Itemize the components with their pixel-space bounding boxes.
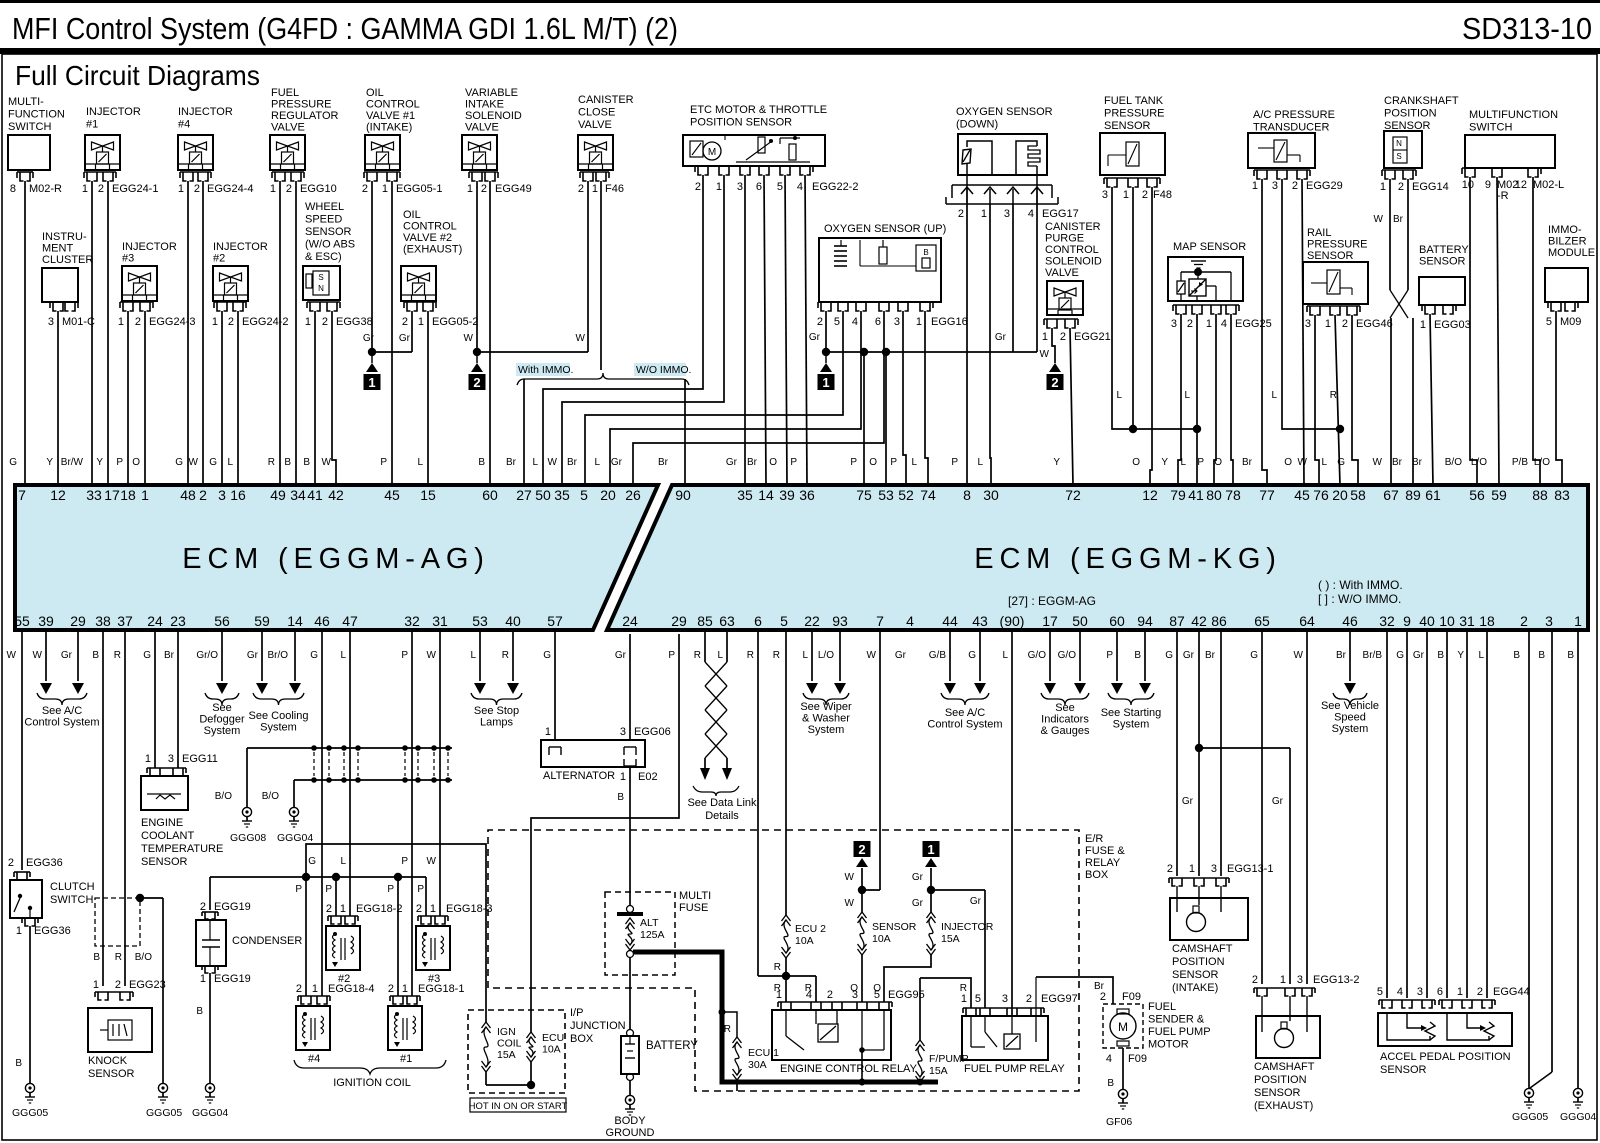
svg-text:GROUND: GROUND <box>606 1127 655 1139</box>
svg-text:L: L <box>1116 390 1122 401</box>
svg-text:4: 4 <box>797 181 803 193</box>
svg-text:1: 1 <box>961 993 967 1005</box>
svg-text:(W/O ABS: (W/O ABS <box>305 239 355 251</box>
svg-text:SENSOR: SENSOR <box>872 921 917 933</box>
svg-text:94: 94 <box>1137 613 1153 629</box>
svg-text:4: 4 <box>1028 208 1034 220</box>
svg-text:VALVE #2: VALVE #2 <box>403 232 452 244</box>
svg-text:N: N <box>1396 139 1402 148</box>
svg-text:P: P <box>890 457 897 468</box>
svg-text:Gr: Gr <box>912 872 924 883</box>
svg-text:MULTI-: MULTI- <box>8 96 44 108</box>
svg-text:INJECTOR: INJECTOR <box>941 921 994 933</box>
svg-text:15: 15 <box>420 487 436 503</box>
svg-text:2: 2 <box>1026 993 1032 1005</box>
svg-text:26: 26 <box>625 487 641 503</box>
svg-text:P: P <box>387 884 394 895</box>
svg-text:1: 1 <box>592 183 598 195</box>
svg-text:31: 31 <box>432 613 448 629</box>
svg-text:F09: F09 <box>1128 1053 1147 1065</box>
svg-text:EGG11: EGG11 <box>182 753 218 765</box>
svg-text:2: 2 <box>228 316 234 328</box>
svg-text:W: W <box>1298 457 1308 468</box>
svg-text:R: R <box>773 650 780 661</box>
svg-text:FUEL: FUEL <box>271 87 299 99</box>
svg-text:P: P <box>380 457 387 468</box>
svg-text:10A: 10A <box>542 1044 561 1056</box>
svg-text:L: L <box>470 650 476 661</box>
svg-text:9: 9 <box>1403 613 1411 629</box>
svg-text:3: 3 <box>48 316 54 328</box>
svg-text:24: 24 <box>147 613 163 629</box>
svg-text:6: 6 <box>756 181 762 193</box>
svg-text:SENSOR: SENSOR <box>88 1068 135 1080</box>
svg-text:See A/C: See A/C <box>945 707 985 719</box>
svg-text:EGG05-1: EGG05-1 <box>396 183 442 195</box>
svg-text:EGG19: EGG19 <box>214 973 251 985</box>
svg-text:(90): (90) <box>1000 613 1025 629</box>
svg-text:Y: Y <box>96 457 103 468</box>
svg-text:41: 41 <box>1188 487 1204 503</box>
svg-text:F48: F48 <box>1153 189 1172 201</box>
svg-text:COOLANT: COOLANT <box>141 830 194 842</box>
svg-text:1: 1 <box>430 903 436 915</box>
svg-text:W: W <box>845 872 855 883</box>
svg-text:CONTROL: CONTROL <box>403 221 457 233</box>
svg-text:77: 77 <box>1259 487 1275 503</box>
svg-text:R: R <box>114 650 121 661</box>
svg-text:G: G <box>209 457 217 468</box>
svg-text:B: B <box>1513 650 1520 661</box>
svg-text:3: 3 <box>620 726 626 738</box>
svg-text:L: L <box>227 457 233 468</box>
svg-text:See Starting: See Starting <box>1101 707 1162 719</box>
svg-text:P: P <box>951 457 958 468</box>
svg-text:4: 4 <box>1397 986 1403 998</box>
svg-text:FUSE &: FUSE & <box>1085 845 1125 857</box>
svg-text:W: W <box>1374 214 1384 225</box>
svg-text:10: 10 <box>1439 613 1455 629</box>
svg-text:2: 2 <box>1520 613 1528 629</box>
svg-text:W: W <box>427 856 437 867</box>
svg-text:2: 2 <box>481 183 487 195</box>
svg-text:SENSOR: SENSOR <box>141 856 188 868</box>
svg-text:1: 1 <box>418 316 424 328</box>
svg-text:3: 3 <box>1545 613 1553 629</box>
svg-text:78: 78 <box>1225 487 1241 503</box>
svg-text:53: 53 <box>472 613 488 629</box>
svg-text:Gr: Gr <box>399 333 411 344</box>
svg-text:SOLENOID: SOLENOID <box>1045 256 1102 268</box>
svg-text:Y: Y <box>1161 457 1168 468</box>
svg-text:2: 2 <box>1187 318 1193 330</box>
svg-text:-R: -R <box>1497 190 1509 202</box>
svg-text:36: 36 <box>799 487 815 503</box>
svg-text:G: G <box>543 650 551 661</box>
svg-text:ECU 2: ECU 2 <box>795 923 826 935</box>
svg-text:3: 3 <box>737 181 743 193</box>
svg-text:5: 5 <box>834 316 840 328</box>
svg-text:CLUSTER: CLUSTER <box>42 254 93 266</box>
svg-text:5: 5 <box>1546 316 1552 328</box>
svg-text:F09: F09 <box>1122 991 1141 1003</box>
svg-text:1: 1 <box>1206 318 1212 330</box>
svg-text:(INTAKE): (INTAKE) <box>1172 982 1218 994</box>
svg-text:2: 2 <box>8 857 14 869</box>
svg-text:#1: #1 <box>400 1053 412 1065</box>
svg-text:GGG05: GGG05 <box>12 1107 48 1119</box>
svg-text:1: 1 <box>200 973 206 985</box>
svg-text:PRESSURE: PRESSURE <box>1307 239 1368 251</box>
svg-text:#4: #4 <box>308 1053 320 1065</box>
svg-text:5: 5 <box>874 989 880 1001</box>
svg-text:27: 27 <box>516 487 532 503</box>
svg-text:50: 50 <box>535 487 551 503</box>
svg-text:48: 48 <box>180 487 196 503</box>
svg-text:5: 5 <box>975 993 981 1005</box>
svg-text:Br: Br <box>658 457 669 468</box>
svg-text:L: L <box>1002 650 1008 661</box>
svg-text:M: M <box>1118 1020 1128 1034</box>
svg-text:G: G <box>308 856 316 867</box>
svg-text:Br/W: Br/W <box>61 457 84 468</box>
svg-text:18: 18 <box>1479 613 1495 629</box>
svg-text:#2: #2 <box>213 253 225 265</box>
svg-text:P: P <box>668 650 675 661</box>
svg-text:O: O <box>1132 457 1140 468</box>
svg-text:Y: Y <box>1053 457 1060 468</box>
svg-text:1: 1 <box>1325 318 1331 330</box>
svg-text:1: 1 <box>82 183 88 195</box>
svg-text:2: 2 <box>286 183 292 195</box>
svg-text:S: S <box>318 273 323 282</box>
svg-text:L: L <box>911 457 917 468</box>
svg-text:1: 1 <box>1042 331 1048 343</box>
svg-text:W: W <box>464 333 474 344</box>
svg-text:EGG06: EGG06 <box>634 726 671 738</box>
svg-text:Defogger: Defogger <box>199 714 245 726</box>
svg-text:39: 39 <box>779 487 795 503</box>
svg-text:System: System <box>1113 719 1150 731</box>
svg-text:MULTIFUNCTION: MULTIFUNCTION <box>1469 109 1558 121</box>
svg-text:2: 2 <box>402 316 408 328</box>
svg-text:PRESSURE: PRESSURE <box>271 99 332 111</box>
svg-text:3: 3 <box>218 487 226 503</box>
svg-text:EGG24-2: EGG24-2 <box>242 316 288 328</box>
svg-text:2: 2 <box>827 989 833 1001</box>
svg-text:VALVE: VALVE <box>578 119 612 131</box>
svg-text:Gr: Gr <box>995 332 1007 343</box>
svg-text:1: 1 <box>1252 180 1258 192</box>
svg-text:2: 2 <box>1252 974 1258 986</box>
svg-text:1: 1 <box>118 316 124 328</box>
svg-text:INJECTOR: INJECTOR <box>213 241 268 253</box>
svg-text:WHEEL: WHEEL <box>305 201 344 213</box>
svg-text:KNOCK: KNOCK <box>88 1055 128 1067</box>
svg-text:56: 56 <box>1469 487 1485 503</box>
svg-text:Br/B: Br/B <box>1363 650 1383 661</box>
svg-text:EGG17: EGG17 <box>1042 208 1079 220</box>
svg-text:B: B <box>923 248 928 257</box>
svg-text:14: 14 <box>758 487 774 503</box>
svg-text:GGG05: GGG05 <box>1512 1111 1548 1123</box>
svg-text:B: B <box>196 1006 203 1017</box>
svg-text:G: G <box>175 457 183 468</box>
svg-text:W: W <box>33 650 43 661</box>
svg-text:7: 7 <box>18 487 26 503</box>
svg-text:& Gauges: & Gauges <box>1041 725 1090 737</box>
svg-text:47: 47 <box>342 613 358 629</box>
svg-text:2: 2 <box>958 208 964 220</box>
svg-text:1: 1 <box>145 753 151 765</box>
svg-text:P: P <box>790 457 797 468</box>
svg-text:See: See <box>1055 702 1075 714</box>
svg-text:1: 1 <box>1574 613 1582 629</box>
svg-text:9: 9 <box>1485 179 1491 191</box>
svg-text:SENSOR: SENSOR <box>1380 1064 1427 1076</box>
svg-text:49: 49 <box>270 487 286 503</box>
svg-text:L: L <box>1321 457 1327 468</box>
svg-text:1: 1 <box>1457 986 1463 998</box>
svg-text:B: B <box>1437 650 1444 661</box>
svg-text:OXYGEN SENSOR: OXYGEN SENSOR <box>956 106 1053 118</box>
svg-text:5: 5 <box>777 181 783 193</box>
svg-text:67: 67 <box>1383 487 1399 503</box>
svg-text:29: 29 <box>70 613 86 629</box>
svg-text:G: G <box>143 650 151 661</box>
svg-text:OXYGEN SENSOR (UP): OXYGEN SENSOR (UP) <box>824 223 946 235</box>
svg-text:60: 60 <box>1109 613 1125 629</box>
svg-text:B/O: B/O <box>1445 457 1462 468</box>
svg-text:MAP SENSOR: MAP SENSOR <box>1173 241 1246 253</box>
svg-text:12: 12 <box>50 487 66 503</box>
svg-text:INJECTOR: INJECTOR <box>178 106 233 118</box>
svg-text:Y: Y <box>46 457 53 468</box>
svg-text:7: 7 <box>876 613 884 629</box>
svg-text:CLUTCH: CLUTCH <box>50 881 95 893</box>
svg-text:See Vehicle: See Vehicle <box>1321 700 1379 712</box>
svg-text:1: 1 <box>382 183 388 195</box>
svg-text:40: 40 <box>1419 613 1435 629</box>
svg-text:Gr: Gr <box>611 457 623 468</box>
svg-text:2: 2 <box>1292 180 1298 192</box>
svg-text:3: 3 <box>1171 318 1177 330</box>
svg-text:B: B <box>15 1058 22 1069</box>
svg-text:IMMO-: IMMO- <box>1548 224 1582 236</box>
svg-text:17: 17 <box>1042 613 1058 629</box>
svg-text:FUEL TANK: FUEL TANK <box>1104 95 1164 107</box>
svg-text:1: 1 <box>1420 319 1426 331</box>
svg-text:PRESSURE: PRESSURE <box>1104 108 1165 120</box>
svg-text:EGG18-3: EGG18-3 <box>446 903 492 915</box>
svg-text:G: G <box>968 650 976 661</box>
svg-text:P: P <box>1106 650 1113 661</box>
svg-text:Details: Details <box>705 810 739 822</box>
svg-text:L/O: L/O <box>1471 457 1487 468</box>
svg-text:6: 6 <box>1437 986 1443 998</box>
svg-text:1: 1 <box>141 487 149 503</box>
svg-text:W: W <box>867 650 877 661</box>
svg-text:30: 30 <box>983 487 999 503</box>
svg-text:3: 3 <box>894 316 900 328</box>
svg-text:POSITION: POSITION <box>1384 108 1437 120</box>
svg-text:B: B <box>1107 1078 1114 1089</box>
svg-text:Gr: Gr <box>970 896 982 907</box>
svg-text:89: 89 <box>1405 487 1421 503</box>
svg-text:With IMMO.: With IMMO. <box>518 364 573 376</box>
svg-text:4: 4 <box>852 316 858 328</box>
svg-text:1: 1 <box>467 183 473 195</box>
svg-text:EGG21: EGG21 <box>1074 331 1111 343</box>
svg-text:L/O: L/O <box>818 650 834 661</box>
svg-text:Speed: Speed <box>1334 712 1366 724</box>
svg-text:W: W <box>1294 650 1304 661</box>
svg-text:POSITION: POSITION <box>1254 1074 1307 1086</box>
svg-text:SWITCH: SWITCH <box>50 894 93 906</box>
svg-text:10: 10 <box>1462 179 1474 191</box>
svg-text:& Washer: & Washer <box>802 713 850 725</box>
svg-text:A/C PRESSURE: A/C PRESSURE <box>1253 109 1335 121</box>
svg-text:ECM (EGGM-KG): ECM (EGGM-KG) <box>974 543 1281 575</box>
svg-text:22: 22 <box>804 613 820 629</box>
svg-text:2: 2 <box>1142 189 1148 201</box>
svg-text:P: P <box>417 884 424 895</box>
svg-text:EGG14: EGG14 <box>1412 181 1449 193</box>
svg-text:29: 29 <box>671 613 687 629</box>
svg-text:B: B <box>617 792 624 803</box>
svg-text:3: 3 <box>1417 986 1423 998</box>
svg-text:10A: 10A <box>872 933 891 945</box>
svg-text:O: O <box>1284 457 1292 468</box>
svg-text:TRANSDUCER: TRANSDUCER <box>1253 122 1329 134</box>
svg-text:EGG23: EGG23 <box>129 979 166 991</box>
svg-text:CONTROL: CONTROL <box>366 99 420 111</box>
svg-text:2: 2 <box>194 183 200 195</box>
svg-text:4: 4 <box>806 989 812 1001</box>
svg-text:2: 2 <box>858 842 865 857</box>
svg-text:2: 2 <box>1167 863 1173 875</box>
svg-text:SENDER &: SENDER & <box>1148 1014 1205 1026</box>
svg-text:R: R <box>1330 390 1337 401</box>
svg-text:4: 4 <box>1221 318 1227 330</box>
svg-text:46: 46 <box>314 613 330 629</box>
svg-text:2: 2 <box>578 183 584 195</box>
svg-text:Br: Br <box>164 650 175 661</box>
svg-text:W: W <box>427 650 437 661</box>
svg-text:JUNCTION: JUNCTION <box>570 1020 626 1032</box>
svg-text:O: O <box>869 457 877 468</box>
svg-text:EGG18-1: EGG18-1 <box>418 983 464 995</box>
svg-text:1: 1 <box>1189 863 1195 875</box>
svg-text:15A: 15A <box>941 933 960 945</box>
svg-text:86: 86 <box>1211 613 1227 629</box>
svg-text:#1: #1 <box>86 119 98 131</box>
svg-text:59: 59 <box>254 613 270 629</box>
svg-text:EGG16: EGG16 <box>931 316 968 328</box>
svg-text:See Cooling: See Cooling <box>249 710 309 722</box>
svg-text:See: See <box>212 702 232 714</box>
svg-text:G/B: G/B <box>929 650 947 661</box>
svg-text:P: P <box>116 457 123 468</box>
svg-text:R: R <box>694 650 701 661</box>
svg-text:L: L <box>340 650 346 661</box>
svg-text:8: 8 <box>10 183 16 195</box>
svg-text:See Data Link: See Data Link <box>687 797 757 809</box>
svg-text:Y: Y <box>1457 650 1464 661</box>
svg-text:Gr: Gr <box>1413 650 1425 661</box>
svg-text:Br: Br <box>567 457 578 468</box>
svg-text:2: 2 <box>817 316 823 328</box>
svg-text:BILZER: BILZER <box>1548 236 1587 248</box>
svg-text:INJECTOR: INJECTOR <box>86 106 141 118</box>
svg-text:Lamps: Lamps <box>480 717 514 729</box>
svg-text:FUEL PUMP: FUEL PUMP <box>1148 1026 1211 1038</box>
svg-text:57: 57 <box>547 613 563 629</box>
svg-text:W: W <box>189 457 199 468</box>
svg-text:SPEED: SPEED <box>305 214 342 226</box>
svg-text:VALVE: VALVE <box>271 122 305 134</box>
svg-text:1: 1 <box>402 983 408 995</box>
svg-text:Gr: Gr <box>895 650 907 661</box>
svg-text:1: 1 <box>716 181 722 193</box>
svg-text:B: B <box>303 457 310 468</box>
svg-text:EGG25: EGG25 <box>1235 318 1272 330</box>
svg-text:Gr: Gr <box>615 650 627 661</box>
svg-text:2: 2 <box>326 903 332 915</box>
svg-text:GF06: GF06 <box>1106 1116 1132 1128</box>
svg-text:2: 2 <box>416 903 422 915</box>
svg-text:18: 18 <box>120 487 136 503</box>
svg-text:B: B <box>93 952 100 963</box>
svg-text:G/O: G/O <box>1058 650 1077 661</box>
svg-text:20: 20 <box>600 487 616 503</box>
svg-text:L: L <box>717 650 723 661</box>
svg-text:[27] : EGGM-AG: [27] : EGGM-AG <box>1008 594 1096 608</box>
svg-text:SWITCH: SWITCH <box>8 121 51 133</box>
svg-text:4: 4 <box>906 613 914 629</box>
svg-text:60: 60 <box>482 487 498 503</box>
svg-text:2: 2 <box>98 183 104 195</box>
svg-text:GGG04: GGG04 <box>192 1107 228 1119</box>
svg-text:6: 6 <box>754 613 762 629</box>
svg-text:CONDENSER: CONDENSER <box>232 935 302 947</box>
svg-text:Br: Br <box>506 457 517 468</box>
svg-text:Control System: Control System <box>24 717 99 729</box>
svg-text:P: P <box>325 884 332 895</box>
svg-text:SENSOR: SENSOR <box>1104 120 1151 132</box>
svg-text:EGG03: EGG03 <box>1434 319 1471 331</box>
svg-text:1: 1 <box>981 208 987 220</box>
svg-text:Gr: Gr <box>363 333 375 344</box>
svg-text:FUSE: FUSE <box>679 902 708 914</box>
svg-text:ACCEL PEDAL POSITION: ACCEL PEDAL POSITION <box>1380 1051 1511 1063</box>
svg-text:FUNCTION: FUNCTION <box>8 109 65 121</box>
svg-text:G: G <box>9 457 17 468</box>
svg-text:125A: 125A <box>640 929 665 941</box>
svg-text:O: O <box>769 457 777 468</box>
svg-text:2: 2 <box>1100 991 1106 1003</box>
svg-text:3: 3 <box>168 753 174 765</box>
svg-text:& ESC): & ESC) <box>305 251 342 263</box>
svg-text:POSITION SENSOR: POSITION SENSOR <box>690 117 792 129</box>
svg-text:System: System <box>808 724 845 736</box>
svg-text:M09: M09 <box>1560 316 1581 328</box>
svg-text:Gr: Gr <box>1272 796 1284 807</box>
svg-text:SENSOR: SENSOR <box>1172 969 1219 981</box>
svg-text:55: 55 <box>14 613 30 629</box>
svg-text:RELAY: RELAY <box>1085 857 1121 869</box>
svg-text:EGG46: EGG46 <box>1356 318 1393 330</box>
